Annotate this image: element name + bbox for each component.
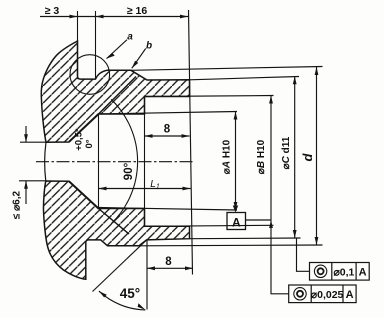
dim ext line B top bbox=[145, 96, 274, 97]
left face line through throat hole bbox=[45, 142, 46, 181]
dim L1 line bbox=[99, 188, 191, 190]
svg-text:⌀B H10: ⌀B H10 bbox=[256, 139, 267, 174]
dim 8 bottom line bbox=[147, 267, 193, 269]
svg-text:8: 8 bbox=[165, 256, 172, 268]
arrow 45 arc right end bbox=[138, 303, 146, 310]
cone face bold upper bbox=[69, 114, 99, 142]
dim line dia A bbox=[235, 112, 237, 211]
arrow 8 bottom left bbox=[147, 266, 155, 270]
dim ext line d bottom bbox=[139, 244, 323, 247]
ext vertical for bottom 8 right bbox=[192, 240, 194, 275]
dim ext line d top bbox=[131, 67, 323, 71]
hole dim ext top bbox=[20, 141, 46, 143]
datum A box connector bbox=[246, 219, 272, 221]
dim line d bbox=[316, 67, 318, 245]
cone face extension upper bbox=[99, 77, 137, 115]
svg-text:≤ ⌀6,2: ≤ ⌀6,2 bbox=[12, 190, 23, 219]
top dimension line bbox=[40, 16, 188, 18]
arrow dia A down bbox=[234, 202, 238, 210]
svg-text:8: 8 bbox=[164, 124, 171, 136]
arrow dia C up bbox=[293, 76, 297, 84]
svg-text:b: b bbox=[146, 41, 152, 52]
detail circle bbox=[70, 55, 110, 95]
dim ext line A top bbox=[99, 112, 238, 115]
svg-text:45°: 45° bbox=[120, 286, 140, 301]
arrow L1 right bbox=[183, 187, 191, 191]
arrow hole dim down at top edge bbox=[24, 134, 28, 142]
leader a bbox=[107, 40, 128, 59]
cone face bold lower bbox=[69, 181, 99, 208]
dim 8 top line bbox=[145, 135, 190, 137]
arrow leader a bbox=[107, 53, 115, 59]
part body upper section (hump + top wall), hatched bbox=[41, 41, 189, 142]
arrow d down bbox=[315, 237, 319, 245]
arrow top dim left-pointing at 95.5 bbox=[96, 15, 104, 19]
datum A box bbox=[227, 206, 246, 230]
arrowheads bbox=[24, 15, 318, 310]
svg-text:L1: L1 bbox=[150, 179, 160, 191]
dim ext line C bottom bbox=[190, 237, 301, 240]
arrow 8 top right bbox=[182, 134, 190, 138]
cone face extension lower bbox=[99, 209, 130, 235]
svg-text:≥ 16: ≥ 16 bbox=[127, 5, 148, 17]
ext vertical for bottom 8 left / 45deg bbox=[146, 240, 148, 310]
dim line dia B + leader to FCF2 bbox=[271, 96, 289, 294]
arrow 45 arc left end bbox=[99, 291, 107, 297]
svg-text:≥ 3: ≥ 3 bbox=[45, 5, 60, 17]
svg-text:⌀C d11: ⌀C d11 bbox=[281, 136, 292, 169]
end face vertical line (also ext for top dim and bottom 8) bbox=[189, 10, 193, 275]
svg-text:90°: 90° bbox=[123, 162, 135, 180]
FCF1 leader bbox=[297, 239, 310, 272]
dim ext line A bottom bbox=[99, 208, 238, 211]
step face vertical line boreA/boreB bbox=[144, 97, 146, 227]
svg-text:⌀0,1: ⌀0,1 bbox=[333, 266, 354, 278]
leader b bbox=[132, 49, 146, 69]
arrow d up bbox=[315, 67, 319, 75]
cone/boreA transition vertical line bbox=[98, 114, 100, 209]
dim ext line B bottom bbox=[145, 225, 274, 226]
svg-text:A: A bbox=[232, 216, 241, 230]
arrow dia C down bbox=[293, 230, 297, 238]
hole dim line with tails bbox=[25, 126, 27, 204]
45 deg dimension arc bbox=[99, 291, 145, 310]
arrow dia B up bbox=[269, 96, 273, 104]
feature control frame 1: concentricity 0,1 A bbox=[310, 263, 370, 281]
svg-text:0°: 0° bbox=[84, 139, 95, 148]
svg-text:A: A bbox=[359, 267, 367, 279]
feature control frame 2: concentricity 0,025 A bbox=[289, 285, 356, 303]
svg-text:a: a bbox=[127, 32, 133, 43]
svg-text:A: A bbox=[346, 289, 354, 301]
arrow 8 bottom right bbox=[185, 266, 193, 270]
svg-text:+0,5°: +0,5° bbox=[74, 128, 85, 151]
channel left wall + ext bbox=[77, 11, 79, 79]
arrow top dim right at 188 bbox=[180, 15, 188, 19]
arrow dia A up bbox=[234, 112, 238, 120]
centerline bbox=[36, 161, 193, 163]
arrow 8 top left bbox=[145, 134, 153, 138]
svg-text:⌀0,025: ⌀0,025 bbox=[311, 289, 344, 301]
arrow top dim right at 77.5 bbox=[70, 15, 78, 19]
arrow dia B bottom up-pointing bbox=[269, 220, 273, 228]
part body lower section (hump bottom + bottom wall), hatched bbox=[43, 181, 189, 279]
channel right wall + ext bbox=[95, 11, 97, 79]
svg-text:d: d bbox=[300, 152, 315, 161]
hole dim ext bottom bbox=[19, 180, 46, 182]
arrow leader b bbox=[132, 61, 139, 69]
90 deg dimension arc bbox=[111, 99, 137, 223]
dim ext line C top bbox=[190, 77, 300, 80]
arrow hole dim up at bottom edge bbox=[24, 181, 28, 189]
svg-text:⌀A H10: ⌀A H10 bbox=[222, 139, 233, 174]
45 deg chamfer extension line bbox=[93, 240, 147, 292]
dim line dia C bbox=[294, 76, 296, 238]
arrow L1 left bbox=[99, 187, 107, 191]
